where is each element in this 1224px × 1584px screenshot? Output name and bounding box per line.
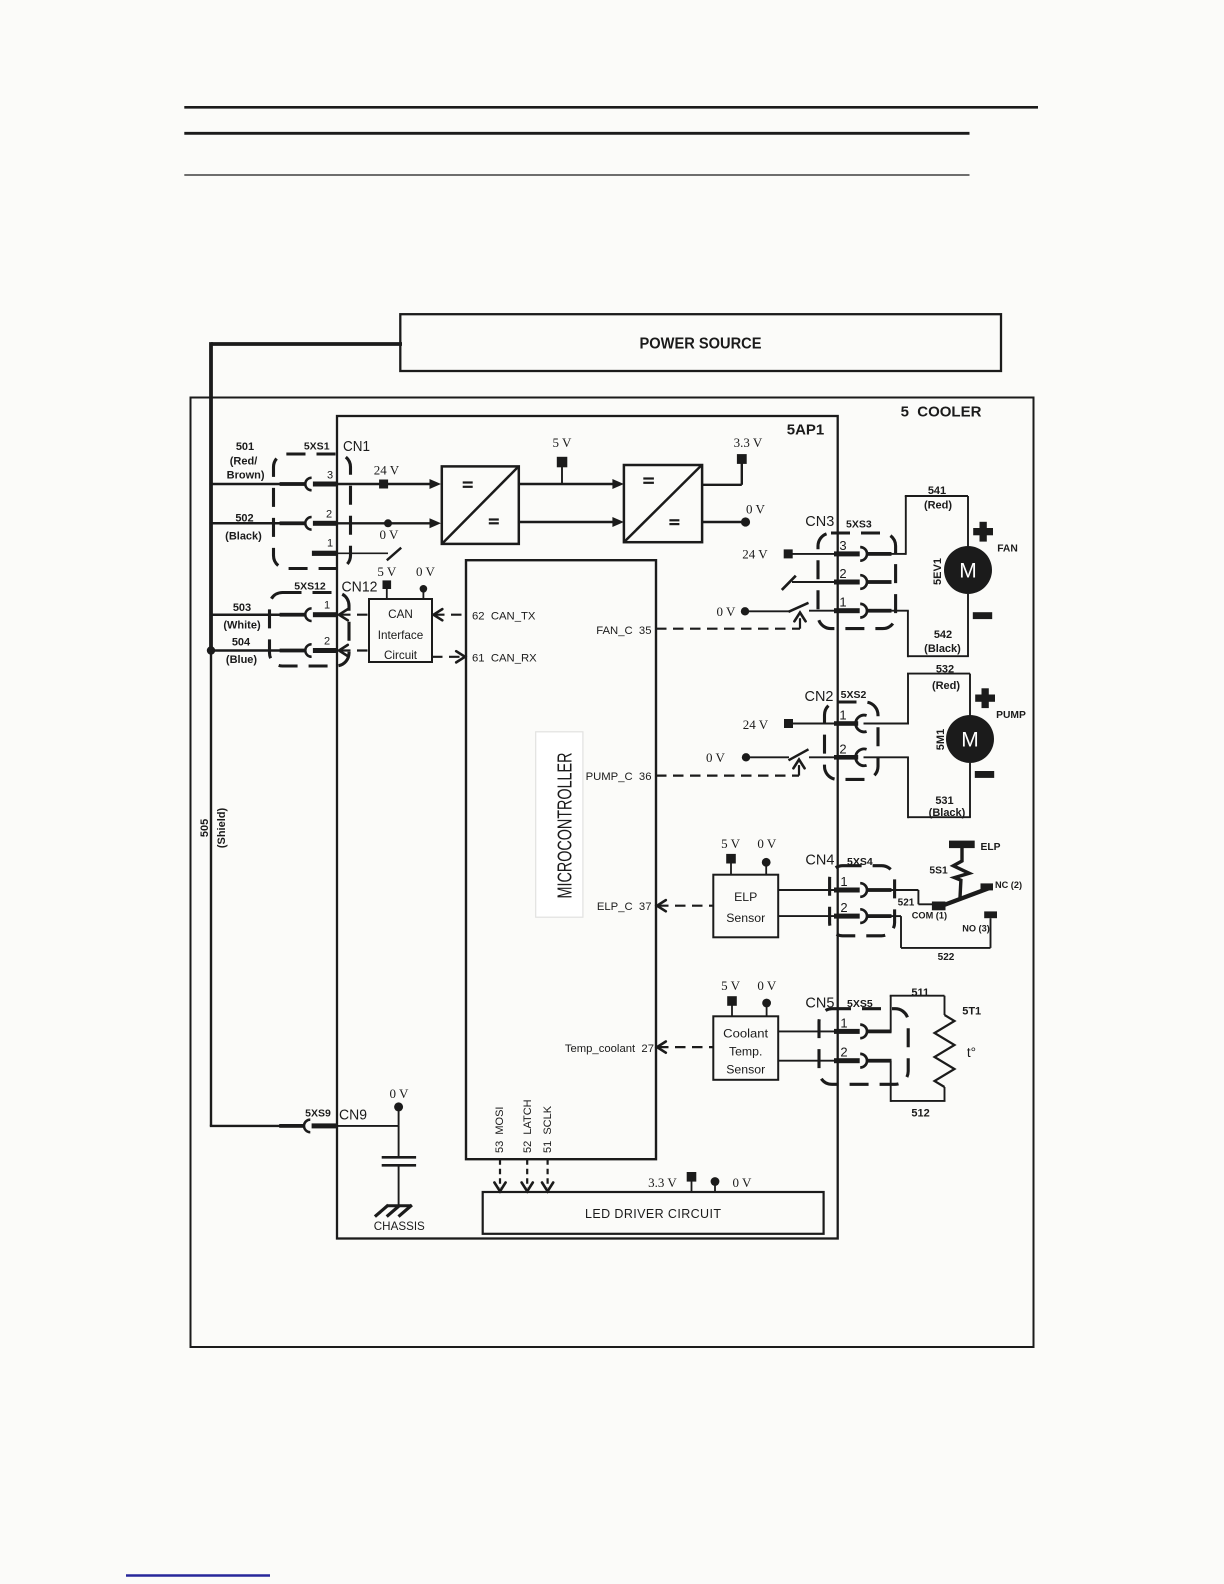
svg-text:5XS12: 5XS12	[294, 581, 326, 593]
connector 5XS2 dashed outline	[825, 702, 879, 779]
label 541	[928, 485, 946, 497]
minus terminal PUMP	[975, 771, 994, 778]
svg-text:(Black): (Black)	[924, 643, 961, 655]
svg-text:24 V: 24 V	[743, 717, 769, 732]
svg-text:2: 2	[839, 741, 846, 756]
label (Red) 532	[932, 680, 960, 692]
wire 0V to switch CN2	[746, 756, 789, 758]
label 5AP1	[787, 422, 825, 439]
terminal dot 0V output	[741, 517, 750, 526]
wire coolant sensor to CN5 pin2	[778, 1060, 835, 1062]
svg-text:3: 3	[839, 538, 846, 553]
label 0 V CN9	[390, 1086, 410, 1101]
label 5 V coolant sensor	[721, 978, 741, 993]
svg-text:Temp_coolant 27: Temp_coolant 27	[565, 1043, 654, 1055]
svg-text:ELP_C 37: ELP_C 37	[597, 901, 652, 913]
pin number CN2-1	[839, 708, 846, 723]
wire 503	[210, 613, 281, 616]
svg-text:512: 512	[911, 1108, 929, 1120]
terminal square 5V coolant	[727, 996, 737, 1016]
label COM (1)	[912, 910, 947, 920]
svg-text:1: 1	[327, 537, 333, 549]
motor FAN 5EV1	[944, 546, 992, 594]
label 0 V CN2	[706, 750, 726, 765]
label CN9	[339, 1107, 367, 1124]
terminal square 24V CN3	[784, 549, 793, 558]
terminal dot 0V CAN	[420, 585, 428, 599]
svg-text:2: 2	[839, 566, 846, 581]
svg-text:Interface: Interface	[378, 629, 423, 642]
rotated label 53 MOSI	[494, 1107, 506, 1153]
label 5XS9	[305, 1107, 331, 1119]
pin number CN5-1	[840, 1016, 847, 1031]
svg-text:CHASSIS: CHASSIS	[374, 1219, 425, 1233]
pin number CN3-2	[839, 566, 846, 581]
svg-text:0 V: 0 V	[390, 1086, 410, 1101]
arrow into converter B top	[612, 479, 624, 489]
label CN12	[342, 579, 378, 596]
page header rule 2	[184, 132, 969, 135]
svg-text:501: 501	[236, 441, 254, 453]
svg-text:0 V: 0 V	[380, 527, 400, 542]
label CN5	[805, 994, 834, 1011]
svg-text:ELP: ELP	[980, 842, 1000, 853]
svg-text:t°: t°	[967, 1045, 976, 1060]
label 3.3 V LED	[648, 1175, 677, 1190]
svg-text:5 COOLER: 5 COOLER	[901, 404, 982, 421]
label 0 V CN3	[717, 604, 737, 619]
svg-text:0 V: 0 V	[717, 604, 737, 619]
label 0 V LED	[733, 1175, 753, 1190]
wire ELP sensor to CN4 pin1	[778, 889, 835, 891]
label 5XS5	[847, 998, 873, 1010]
label 5XS4	[847, 856, 873, 868]
label CN4	[805, 851, 834, 868]
rotated label 5EV1	[932, 558, 944, 585]
connector 5XS4 dashed outline	[830, 866, 895, 936]
svg-text:5 V: 5 V	[721, 978, 741, 993]
svg-text:511: 511	[911, 987, 929, 999]
unit 5AP1 box	[337, 416, 838, 1239]
arrow into converter B bottom	[612, 517, 624, 527]
svg-text:Sensor: Sensor	[726, 1063, 765, 1077]
wire switch to CN2 pin2	[809, 756, 835, 758]
svg-text:5XS1: 5XS1	[304, 440, 330, 452]
wire ELP sensor to CN4 pin2	[778, 915, 835, 917]
svg-text:Circuit: Circuit	[384, 649, 418, 662]
svg-text:2: 2	[840, 900, 847, 915]
label 522	[938, 952, 955, 963]
dc-dc converter B	[624, 465, 702, 542]
svg-text:2: 2	[840, 1045, 847, 1060]
svg-text:0 V: 0 V	[416, 564, 436, 579]
page header rule 3	[184, 174, 969, 176]
svg-text:5AP1: 5AP1	[787, 422, 825, 439]
label 0 V output	[746, 502, 766, 517]
label FAN	[997, 544, 1018, 555]
pin number CN1-2	[326, 509, 332, 521]
svg-text:5XS3: 5XS3	[846, 518, 872, 530]
svg-text:(White): (White)	[223, 620, 261, 632]
svg-text:52 LATCH: 52 LATCH	[522, 1099, 534, 1153]
wire 0V rail converter A to B	[519, 521, 616, 523]
label 24 V rail	[374, 462, 400, 477]
connector CN4 pin 2	[834, 909, 892, 923]
wire 504	[210, 649, 281, 652]
connector CN5 pin 2	[834, 1054, 892, 1068]
label PUMP	[996, 710, 1026, 721]
pin number CN4-1	[840, 874, 847, 889]
svg-text:521: 521	[898, 897, 915, 908]
label 542	[934, 629, 952, 641]
pin number CN12-1	[324, 600, 330, 612]
terminal square 5V CAN	[383, 580, 392, 599]
arrow into converter A bottom	[430, 518, 442, 528]
label 5XS2	[841, 689, 867, 701]
svg-text:FAN: FAN	[997, 544, 1018, 555]
label (Black) 531	[929, 807, 966, 819]
pin number CN1-3	[327, 469, 333, 481]
label 503 (White)	[223, 602, 261, 632]
svg-text:3.3 V: 3.3 V	[734, 435, 763, 450]
label NC (2)	[995, 880, 1022, 890]
svg-text:53 MOSI: 53 MOSI	[494, 1107, 506, 1153]
label (Red) 541	[924, 499, 952, 511]
svg-text:522: 522	[938, 952, 955, 963]
svg-text:PUMP: PUMP	[996, 710, 1026, 721]
terminal square 3.3V rail	[737, 454, 747, 464]
svg-text:5 V: 5 V	[377, 564, 397, 579]
label 24 V CN2	[743, 717, 769, 732]
wire CN1 pin1 stub	[338, 552, 388, 554]
svg-text:(Red/: (Red/	[230, 455, 258, 467]
svg-text:2: 2	[326, 509, 332, 521]
power source box	[400, 314, 1001, 371]
label 0 V ELP sensor	[757, 836, 777, 851]
terminal dot 0V LED	[711, 1177, 720, 1192]
svg-text:504: 504	[232, 637, 251, 649]
rotated label 52 LATCH	[522, 1099, 534, 1153]
label 62 CAN_TX	[472, 610, 536, 622]
label 512	[911, 1108, 929, 1120]
wire 542 loop	[908, 611, 969, 658]
svg-text:2: 2	[324, 636, 330, 648]
chassis ground symbol	[375, 1205, 412, 1217]
label 521	[898, 897, 915, 908]
terminal dot 0V CN2	[742, 753, 750, 761]
wire CN3 pin3 to fan loop	[892, 553, 906, 555]
pin number CN3-1	[839, 595, 846, 610]
svg-text:M: M	[959, 559, 977, 582]
svg-text:0 V: 0 V	[757, 978, 777, 993]
dashed wire CN12-2 to CAN interface	[339, 645, 369, 656]
wire 531 loop	[908, 757, 971, 818]
label t deg	[967, 1045, 976, 1060]
junction node on wire 504/505	[207, 646, 215, 654]
connector CN2 pin 2	[834, 749, 867, 766]
label CHASSIS	[374, 1219, 425, 1233]
pin number CN5-2	[840, 1045, 847, 1060]
dashed arrow SCLK	[542, 1159, 553, 1191]
label 502 (Black)	[225, 512, 262, 542]
label 532	[936, 663, 954, 675]
spring actuator 5S1	[953, 848, 969, 898]
label NO (3)	[962, 923, 990, 933]
wire CN3 pin2 stub	[792, 581, 835, 583]
label 5T1	[962, 1006, 981, 1018]
label ELP_C 37	[597, 901, 652, 913]
wire 532 loop	[907, 674, 970, 725]
dashed wire PUMP_C	[656, 760, 805, 776]
svg-text:NC (2): NC (2)	[995, 880, 1022, 890]
open-circuit slash CN1 pin1	[387, 548, 401, 561]
terminal dot 0V CN3	[741, 607, 749, 615]
label CN3	[805, 513, 834, 530]
wire fan loop to CN3 pin1	[892, 610, 909, 612]
label 5S1	[929, 866, 948, 877]
wire 5V rail converter A to B	[519, 483, 616, 485]
connector CN5 pin 1	[834, 1025, 892, 1039]
svg-text:M: M	[961, 728, 979, 751]
label 0V terminal above CAN interface	[416, 564, 436, 579]
connector CN1 pin 1 (unused male pin)	[312, 551, 338, 556]
enclosure 5 COOLER box	[191, 398, 1034, 1348]
svg-text:3: 3	[327, 469, 333, 481]
switch lever CN2 pin2	[789, 749, 809, 760]
dashed arrow MOSI	[494, 1159, 505, 1191]
label 5XS3	[846, 518, 872, 530]
svg-text:Temp.: Temp.	[729, 1045, 763, 1059]
svg-text:CN1: CN1	[343, 438, 370, 455]
label 0 V coolant sensor	[757, 978, 777, 993]
pin number CN4-2	[840, 900, 847, 915]
wire switch to CN3 pin1	[809, 610, 835, 612]
svg-text:NO (3): NO (3)	[962, 923, 990, 933]
block Coolant Temp Sensor	[713, 1016, 778, 1080]
svg-text:62 CAN_TX: 62 CAN_TX	[472, 610, 536, 622]
label 5 V ELP sensor	[721, 836, 741, 851]
svg-text:FAN_C 35: FAN_C 35	[596, 625, 651, 637]
label Temp_coolant 27	[565, 1043, 654, 1055]
svg-text:51 SCLK: 51 SCLK	[542, 1105, 554, 1153]
terminal dot 0V coolant	[762, 999, 771, 1017]
svg-text:CAN: CAN	[388, 608, 413, 621]
connector 5XS3 dashed outline	[818, 533, 896, 629]
pin number CN1-1	[327, 537, 333, 549]
terminal dot 0V ELP	[762, 858, 771, 875]
svg-text:1: 1	[839, 595, 846, 610]
label 5XS12	[294, 581, 326, 593]
svg-text:0 V: 0 V	[733, 1175, 753, 1190]
terminal square 24V CN2	[784, 719, 793, 728]
wire coolant sensor to CN5 pin1	[778, 1030, 835, 1032]
svg-text:(Red): (Red)	[924, 499, 952, 511]
block LED DRIVER CIRCUIT	[483, 1192, 824, 1234]
label ELP	[980, 842, 1000, 853]
block ELP Sensor	[713, 875, 778, 938]
svg-text:MICROCONTROLLER: MICROCONTROLLER	[555, 753, 577, 899]
connector CN3 pin 1	[834, 604, 892, 618]
label PUMP_C 36	[586, 771, 652, 783]
svg-text:24 V: 24 V	[374, 462, 400, 477]
svg-text:(Shield): (Shield)	[216, 808, 228, 849]
label 0 V rail	[380, 527, 400, 542]
switch lever CN3 pin2	[782, 576, 796, 590]
connector CN9 pin	[279, 1120, 337, 1133]
terminal dot 0V CN9	[394, 1102, 403, 1126]
contact COM (1)	[932, 902, 946, 911]
svg-text:3.3 V: 3.3 V	[648, 1175, 677, 1190]
svg-text:Sensor: Sensor	[726, 911, 765, 925]
label 511	[911, 987, 929, 999]
label 5 COOLER	[901, 404, 982, 421]
svg-text:CN9: CN9	[339, 1107, 367, 1124]
dashed wire 61 CAN_RX	[432, 651, 465, 662]
svg-text:ELP: ELP	[734, 890, 757, 904]
svg-text:PUMP_C 36: PUMP_C 36	[586, 771, 652, 783]
svg-text:24 V: 24 V	[742, 547, 768, 562]
svg-text:Coolant: Coolant	[723, 1027, 769, 1041]
connector CN1 pin 3	[280, 478, 338, 491]
svg-text:503: 503	[233, 602, 251, 614]
junction dot 0V rail	[384, 519, 392, 527]
svg-text:(Blue): (Blue)	[226, 654, 258, 666]
connector CN1 pin 2	[280, 517, 338, 530]
block CAN Interface Circuit	[369, 599, 432, 662]
label 504 (Blue)	[226, 637, 258, 667]
svg-text:Brown): Brown)	[227, 469, 265, 481]
wire 3.3V output	[702, 463, 742, 485]
label (Black) 542	[924, 643, 961, 655]
motor PUMP 5M1	[946, 715, 994, 763]
wire 505 shield bus	[210, 651, 281, 1126]
connector CN3 pin 2	[834, 575, 892, 589]
wire power feed from POWER SOURCE	[211, 342, 402, 650]
terminal square 3.3V LED	[687, 1172, 697, 1192]
svg-text:1: 1	[840, 874, 847, 889]
svg-text:5T1: 5T1	[962, 1006, 981, 1018]
dc-dc converter A	[442, 466, 519, 544]
connector CN2 pin 1	[834, 715, 867, 732]
wire 24V to CN3 pin3	[792, 553, 835, 555]
wire 511 loop	[890, 996, 945, 1033]
terminal square 5V ELP	[726, 854, 736, 875]
svg-text:CN4: CN4	[805, 851, 834, 868]
wire 521	[892, 890, 934, 904]
svg-text:505: 505	[199, 819, 211, 837]
terminal bar ELP	[949, 841, 975, 849]
svg-text:5 V: 5 V	[553, 435, 573, 450]
wire FAN minus	[967, 594, 969, 656]
wire 512 loop	[891, 1061, 946, 1102]
wire CN2 pin1 to pump loop	[864, 723, 910, 725]
svg-text:0 V: 0 V	[706, 750, 726, 765]
rotated label 51 SCLK	[542, 1105, 554, 1153]
connector CN4 pin 1	[834, 883, 892, 897]
svg-text:531: 531	[935, 795, 953, 807]
label 5V terminal above CAN interface	[377, 564, 397, 579]
terminal square 5V rail	[557, 457, 568, 484]
label CN2	[805, 688, 834, 705]
contact NO (3)	[984, 911, 997, 918]
dashed wire CN12-1 to CAN interface	[339, 609, 369, 620]
wire 24V rail CN1 to converter	[337, 483, 434, 485]
wire to capacitor	[398, 1126, 400, 1156]
wire 0V to switch CN3	[745, 610, 789, 612]
arrow into converter A top	[430, 479, 442, 489]
svg-text:5S1: 5S1	[929, 866, 948, 877]
wire 501	[210, 483, 281, 486]
label 5XS1	[304, 440, 330, 452]
svg-text:1: 1	[840, 1016, 847, 1031]
svg-text:5 V: 5 V	[721, 836, 741, 851]
svg-text:61 CAN_RX: 61 CAN_RX	[472, 652, 537, 664]
dashed wire FAN_C	[656, 613, 806, 629]
wire pump loop to CN2 pin2	[864, 756, 909, 758]
wire 0V rail CN1 to converter	[337, 522, 434, 524]
connector CN3 pin 3	[834, 547, 892, 561]
svg-text:LED DRIVER CIRCUIT: LED DRIVER CIRCUIT	[585, 1207, 721, 1221]
switch lever 5S1 COM-NC	[936, 888, 989, 908]
rotated label 5M1	[935, 729, 947, 750]
svg-text:5M1: 5M1	[935, 729, 947, 750]
dashed wire Temp_coolant	[657, 1042, 713, 1053]
wire 502	[210, 522, 281, 525]
wire 0V output	[702, 521, 744, 523]
contact NC (2)	[981, 883, 994, 890]
label 501 (Red/Brown)	[227, 441, 265, 481]
svg-text:COM (1): COM (1)	[912, 910, 947, 920]
connector 5XS1 dashed outline	[274, 454, 351, 569]
connector 5XS12 dashed outline	[270, 593, 350, 667]
plus terminal FAN	[973, 522, 993, 542]
wire CN9 to 0V node	[337, 1125, 399, 1127]
label 505 (Shield)	[199, 808, 228, 849]
block MICROCONTROLLER	[466, 560, 656, 1159]
plus terminal PUMP	[975, 688, 995, 708]
terminal square 24V	[379, 480, 388, 489]
svg-text:CN2: CN2	[805, 688, 834, 705]
connector 5XS5 dashed outline	[819, 1009, 908, 1085]
connector CN12 pin 2	[280, 644, 338, 657]
resistor 5T1	[935, 1015, 955, 1087]
svg-text:5EV1: 5EV1	[932, 558, 944, 585]
svg-text:CN12: CN12	[342, 579, 378, 596]
label 5 V rail	[553, 435, 573, 450]
wire capacitor to ground	[398, 1167, 400, 1206]
page header rule 1	[184, 106, 1038, 109]
wire 541 loop	[905, 496, 968, 555]
label 531	[935, 795, 953, 807]
svg-text:CN3: CN3	[805, 513, 834, 530]
label 24 V CN3	[742, 547, 768, 562]
svg-text:POWER SOURCE: POWER SOURCE	[640, 336, 762, 353]
wire 522	[892, 916, 991, 948]
wire PUMP minus	[969, 763, 971, 817]
wire 24V to CN2 pin1	[792, 723, 835, 725]
svg-text:1: 1	[324, 600, 330, 612]
svg-text:1: 1	[839, 708, 846, 723]
label CN1	[343, 438, 370, 455]
footer rule	[126, 1574, 270, 1577]
svg-text:542: 542	[934, 629, 952, 641]
dashed wire ELP_C	[657, 900, 713, 911]
capacitor to chassis	[382, 1157, 416, 1165]
label 3.3 V rail	[734, 435, 763, 450]
dashed wire 62 CAN_TX	[434, 609, 467, 620]
pin number CN12-2	[324, 636, 330, 648]
label FAN_C 35	[596, 625, 651, 637]
